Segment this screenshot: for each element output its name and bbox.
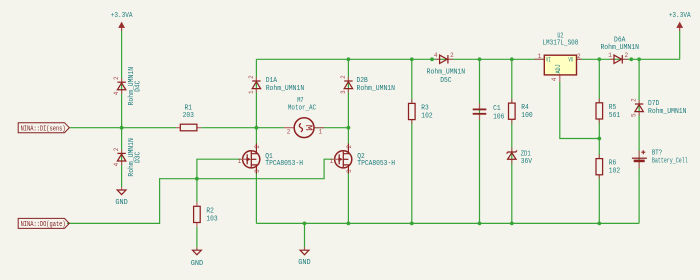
svg-text:NINA::DI(sens): NINA::DI(sens)	[21, 126, 66, 134]
resistor R5	[596, 99, 620, 124]
svg-text:1: 1	[538, 53, 542, 60]
junction E	[410, 57, 414, 61]
wire bottom rail	[256, 222, 639, 224]
ground (left column)	[115, 187, 127, 207]
regulator U2 LM317L_S08	[534, 32, 582, 82]
svg-text:R2: R2	[206, 207, 214, 215]
svg-text:2: 2	[113, 76, 120, 80]
svg-text:NINA::DO(gate): NINA::DO(gate)	[21, 221, 66, 229]
wire R5 R6 column	[598, 59, 600, 223]
diode D7D	[631, 98, 687, 117]
wire R3 column	[411, 59, 413, 223]
svg-text:VO: VO	[568, 56, 573, 63]
junction G	[478, 57, 482, 61]
svg-text:2: 2	[340, 75, 347, 79]
junction N	[303, 222, 307, 226]
svg-text:2: 2	[624, 52, 628, 59]
svg-text:4: 4	[113, 91, 120, 95]
svg-text:1: 1	[238, 158, 242, 165]
svg-text:C1: C1	[493, 105, 501, 113]
resistor R4	[509, 99, 533, 124]
svg-text:2: 2	[287, 129, 291, 136]
svg-text:3: 3	[346, 169, 353, 173]
wire D2B / Q2 drain column	[347, 59, 349, 143]
motor M7	[284, 97, 324, 138]
resistor R6	[596, 154, 620, 179]
diode D6A	[600, 37, 639, 64]
wire R2 bottom to GND	[196, 227, 198, 250]
svg-text:2: 2	[577, 53, 581, 60]
svg-text:GND: GND	[191, 260, 203, 268]
zener diode ZD1	[507, 148, 533, 166]
ground (R2)	[191, 247, 203, 268]
junction P	[410, 222, 414, 226]
svg-text:1: 1	[330, 158, 334, 165]
wire Q1 source	[255, 174, 257, 224]
wire top rail	[256, 58, 679, 60]
power flag +3.3VA left	[111, 12, 133, 31]
wire Q1 gate branch	[197, 159, 241, 179]
transistor Q2	[330, 144, 395, 174]
svg-text:D5C: D5C	[440, 77, 452, 85]
svg-text:GND: GND	[298, 259, 310, 267]
svg-text:D2B: D2B	[357, 77, 369, 85]
power flag +3.3VA right	[669, 12, 691, 31]
svg-text:2: 2	[113, 147, 120, 151]
wire motor to Q2 drain column	[314, 127, 348, 129]
svg-text:5: 5	[631, 113, 638, 117]
svg-text:D3C: D3C	[134, 151, 142, 163]
svg-text:TPCA8053-H: TPCA8053-H	[357, 160, 395, 168]
svg-text:Rohm_UMN1N: Rohm_UMN1N	[357, 85, 396, 93]
svg-text:D4C: D4C	[134, 80, 142, 92]
junction O	[347, 222, 351, 226]
junction B	[255, 126, 259, 130]
svg-text:Motor_AC: Motor_AC	[288, 104, 317, 112]
ground (bottom rail)	[298, 247, 310, 267]
global label NINA::DO(gate)	[18, 218, 69, 229]
battery BT?	[632, 150, 688, 169]
svg-text:R4: R4	[521, 104, 529, 112]
junction D	[347, 57, 351, 61]
junction K	[637, 57, 641, 61]
diode D5C	[427, 52, 466, 85]
junction A	[120, 126, 124, 130]
resistor R2	[194, 202, 218, 227]
resistor R1	[176, 105, 201, 131]
svg-text:102: 102	[421, 112, 433, 120]
svg-text:103: 103	[206, 215, 218, 223]
wire DOgate net	[67, 159, 333, 223]
wire DIsens to R1	[70, 127, 177, 129]
svg-text:2: 2	[346, 145, 353, 149]
svg-text:D7D: D7D	[648, 100, 660, 108]
junction H	[510, 57, 514, 61]
wire D7D battery column	[638, 59, 640, 223]
svg-text:LM317L_S08: LM317L_S08	[542, 40, 578, 48]
svg-text:1: 1	[318, 129, 322, 136]
svg-text:Rohm_UMN1N: Rohm_UMN1N	[600, 44, 639, 52]
svg-text:4: 4	[113, 162, 120, 166]
svg-text:203: 203	[183, 112, 195, 120]
junction Q	[478, 222, 482, 226]
svg-text:R6: R6	[609, 160, 617, 168]
junction F	[430, 57, 434, 61]
svg-text:D1A: D1A	[266, 77, 278, 85]
svg-text:1: 1	[608, 52, 612, 59]
wire +3.3VA right drop	[679, 31, 681, 59]
wire Q2 source	[347, 174, 349, 224]
svg-text:36V: 36V	[521, 158, 533, 166]
svg-text:2: 2	[631, 98, 638, 102]
svg-text:Battery_Cell: Battery_Cell	[652, 157, 688, 165]
svg-text:Rohm_UMN1N: Rohm_UMN1N	[427, 69, 466, 77]
svg-text:R5: R5	[609, 104, 617, 112]
junction J	[629, 57, 633, 61]
svg-text:TPCA8053-H: TPCA8053-H	[265, 160, 303, 168]
svg-text:3: 3	[254, 169, 261, 173]
svg-text:100: 100	[521, 112, 533, 120]
svg-text:M: M	[302, 125, 313, 131]
diode D3C	[113, 138, 142, 177]
svg-text:+3.3VA: +3.3VA	[669, 12, 691, 20]
svg-text:GND: GND	[115, 199, 127, 207]
svg-text:2: 2	[254, 145, 261, 149]
wire left column +3.3VA to GND	[121, 31, 123, 187]
junction R	[510, 222, 514, 226]
svg-text:3: 3	[340, 90, 347, 94]
svg-text:106: 106	[493, 113, 505, 121]
junction S	[597, 222, 601, 226]
junction M	[597, 137, 601, 141]
diode D2B	[340, 75, 395, 94]
svg-text:1: 1	[248, 90, 255, 94]
capacitor C1	[473, 104, 505, 122]
svg-text:+3.3VA: +3.3VA	[111, 12, 133, 20]
wire D1A / Q1 drain column	[255, 59, 257, 143]
svg-text:4: 4	[434, 52, 438, 59]
wire C1 column	[479, 59, 481, 223]
wire R4 ZD1 column	[511, 59, 513, 223]
wire ADJ to divider	[560, 82, 600, 139]
svg-text:2: 2	[248, 75, 255, 79]
svg-text:4: 4	[551, 77, 558, 81]
svg-text:Rohm_UMN1N: Rohm_UMN1N	[648, 108, 687, 116]
junction C	[347, 126, 351, 130]
resistor R3	[409, 99, 433, 124]
wire R1 to motor	[201, 127, 284, 129]
svg-text:Rohm_UMN1N: Rohm_UMN1N	[266, 85, 305, 93]
svg-text:2: 2	[450, 52, 454, 59]
junction L	[195, 177, 199, 181]
svg-text:ADJ: ADJ	[555, 64, 562, 73]
transistor Q1	[238, 144, 303, 174]
wire gnd stub	[304, 223, 306, 249]
global label NINA::DI(sens)	[18, 123, 69, 134]
junction I	[597, 57, 601, 61]
svg-text:R3: R3	[421, 104, 429, 112]
svg-text:561: 561	[609, 112, 621, 120]
wire R2 top stub	[196, 179, 198, 202]
diode D4C	[113, 67, 142, 106]
svg-text:VI: VI	[546, 56, 551, 63]
diode D1A	[248, 75, 304, 94]
svg-text:102: 102	[609, 168, 621, 176]
